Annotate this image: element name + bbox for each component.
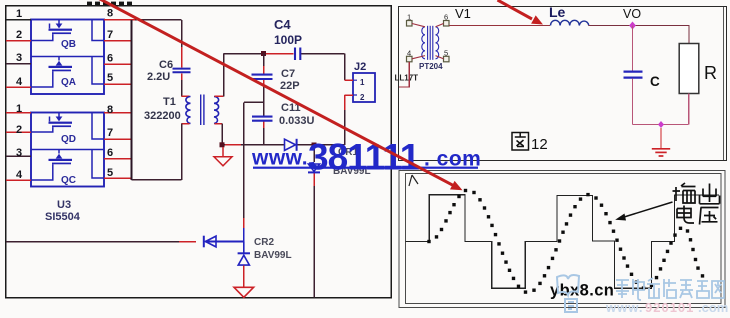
svg-text:3: 3 — [16, 52, 22, 64]
inductor Le — [551, 20, 589, 25]
capacitor C — [624, 72, 643, 78]
transformer PT204 windings — [412, 24, 444, 60]
wire pins left IC1 — [6, 20, 31, 180]
waveform dotted sine — [427, 189, 704, 294]
svg-text:Le: Le — [549, 4, 566, 20]
node CR1 junction — [312, 143, 317, 148]
svg-text:12: 12 — [531, 136, 548, 153]
svg-text:www.: www. — [251, 147, 308, 170]
op-amp U3 package B (QD/QC) box — [31, 113, 104, 187]
wire T1 right-bottom down to rail — [221, 124, 223, 145]
wire bottom rail y=144.8 — [222, 144, 284, 146]
svg-text:1: 1 — [407, 13, 411, 22]
label 图12 — [512, 133, 529, 151]
svg-text:QB: QB — [61, 39, 76, 50]
svg-text:.com: .com — [698, 300, 728, 315]
capacitor C7 — [252, 75, 273, 79]
wire C6 to T1 — [182, 73, 190, 96]
watermark book icon — [557, 275, 579, 312]
svg-text:2: 2 — [360, 93, 365, 102]
red arrow 2 (to Le) — [498, 0, 544, 25]
svg-text:J2: J2 — [354, 61, 366, 73]
red arrow 1 (long diagonal) — [98, 0, 463, 190]
wire pad4 to border — [399, 62, 409, 87]
panel border bottom-right inner — [406, 174, 722, 304]
node junction at C7 top — [261, 51, 266, 56]
svg-text:QC: QC — [61, 175, 76, 186]
svg-text:SI5504: SI5504 — [45, 211, 81, 223]
pin numbers IC1 — [16, 8, 113, 89]
wire bottom rail right panel — [633, 124, 689, 126]
svg-text:5: 5 — [444, 49, 448, 58]
svg-text:QD: QD — [61, 134, 76, 145]
node Vo junction — [629, 22, 636, 30]
svg-text:8: 8 — [107, 104, 113, 116]
svg-text:22P: 22P — [280, 80, 300, 92]
axis tick marks — [409, 175, 418, 186]
wire top net y=53.5 with C4 — [224, 54, 345, 81]
svg-text:C7: C7 — [281, 68, 295, 80]
svg-text:6: 6 — [107, 147, 113, 159]
wire T1 left-bottom down — [181, 124, 183, 180]
svg-text:7: 7 — [107, 127, 113, 139]
svg-text:1: 1 — [360, 78, 365, 87]
ground IEC — [652, 149, 670, 156]
ground CR2 — [234, 287, 254, 297]
svg-text:1: 1 — [16, 8, 22, 20]
transistor QC — [31, 150, 104, 181]
wire right bus — [131, 20, 133, 180]
svg-text:920101: 920101 — [645, 300, 694, 315]
svg-text:322200: 322200 — [144, 110, 181, 122]
svg-text:4: 4 — [16, 169, 23, 181]
svg-text:2: 2 — [16, 29, 22, 41]
capacitor C4 — [295, 48, 300, 61]
transistor QA — [31, 57, 104, 88]
waveform staircase — [406, 195, 720, 288]
node ground junction — [658, 121, 664, 128]
svg-text:3: 3 — [16, 147, 22, 159]
svg-text:7: 7 — [107, 29, 113, 41]
transistor QD — [31, 113, 104, 140]
wire J2 stubs — [345, 80, 354, 110]
wire ground drop — [660, 128, 662, 149]
svg-text:T1: T1 — [163, 96, 176, 108]
transformer T1 — [186, 95, 219, 126]
wire C down — [632, 79, 634, 125]
capacitor C11 — [252, 117, 273, 121]
panel border bottom-right outer — [399, 171, 725, 308]
wire Le to R corner — [589, 26, 690, 44]
label 输出 (output) glyphs — [673, 183, 720, 204]
wire T1 right-top up — [223, 54, 225, 97]
sheet border left panel — [6, 6, 392, 298]
svg-text:C: C — [650, 74, 660, 89]
svg-text:0.033U: 0.033U — [279, 115, 315, 127]
svg-text:V1: V1 — [455, 6, 471, 21]
svg-text:4: 4 — [16, 76, 23, 88]
wire pins right both ICs to bus — [104, 41, 132, 179]
svg-text:381111: 381111 — [308, 137, 420, 178]
svg-text:2.2U: 2.2U — [147, 71, 170, 83]
svg-text:2: 2 — [16, 124, 22, 136]
svg-text:100P: 100P — [274, 33, 302, 47]
op-amp U3 package A (QB/QA) box — [31, 20, 104, 95]
wire C7/C11 branch — [244, 54, 264, 145]
capacitor C6 — [173, 69, 191, 73]
transformer PT204 pads — [407, 21, 450, 62]
wire CR2 to ground — [243, 266, 245, 288]
resistor R — [679, 44, 699, 94]
svg-text:VO: VO — [623, 7, 641, 21]
svg-text:4: 4 — [407, 49, 411, 58]
svg-text:8: 8 — [107, 8, 113, 20]
svg-text:6: 6 — [107, 53, 113, 65]
svg-text:R: R — [704, 63, 717, 83]
wire Vo down to C — [632, 26, 634, 72]
connector J2 — [353, 73, 375, 102]
diode CR1 vertical (pointing down) — [308, 164, 320, 172]
svg-text:C4: C4 — [274, 17, 291, 32]
cut-off text fragment top edge — [87, 2, 132, 5]
svg-text:ybx8.cn: ybx8.cn — [550, 282, 614, 300]
diode CR2 horizontal (pointing left) — [204, 236, 216, 248]
wire pin8 net to C6 — [104, 20, 182, 68]
transistor QB — [31, 20, 104, 41]
pin numbers IC2 — [16, 103, 113, 181]
svg-text:6: 6 — [444, 13, 448, 22]
watermark www.381111.com — [251, 137, 481, 178]
arrow annotation to waveform — [615, 202, 672, 221]
svg-text:PT204: PT204 — [419, 62, 443, 71]
diode CR1 horizontal — [285, 139, 297, 151]
wire CR2 riser from C7/C11 tee — [243, 102, 245, 241]
wire T1 leads — [182, 96, 224, 123]
svg-text:CR2: CR2 — [254, 237, 274, 248]
svg-text:5: 5 — [107, 72, 113, 84]
panel border top-right — [399, 7, 727, 161]
svg-text:C6: C6 — [159, 59, 173, 71]
svg-text:1: 1 — [16, 103, 22, 115]
svg-text:QA: QA — [61, 77, 76, 88]
wire CR1 riser — [313, 145, 315, 298]
svg-text:www.: www. — [605, 300, 643, 315]
svg-text:LL17T: LL17T — [395, 74, 419, 83]
wire CR2 bottom long wire — [6, 241, 244, 243]
diode CR2 vertical (pointing up) — [238, 242, 250, 266]
node junction T1/ground — [220, 142, 225, 147]
svg-text:U3: U3 — [57, 199, 71, 211]
wire V1 line — [449, 25, 550, 27]
watermark CJK faint chars — [616, 278, 724, 300]
wire J2 pin2 down to rail — [344, 110, 346, 145]
svg-text:BAV99L: BAV99L — [254, 250, 292, 261]
wire bus bottom to T1 — [132, 179, 182, 181]
ground at T1 — [214, 147, 232, 166]
wire R down — [688, 94, 690, 125]
internal mid rail — [31, 56, 104, 58]
svg-text:5: 5 — [107, 167, 113, 179]
label 电压 glyphs — [677, 206, 719, 225]
